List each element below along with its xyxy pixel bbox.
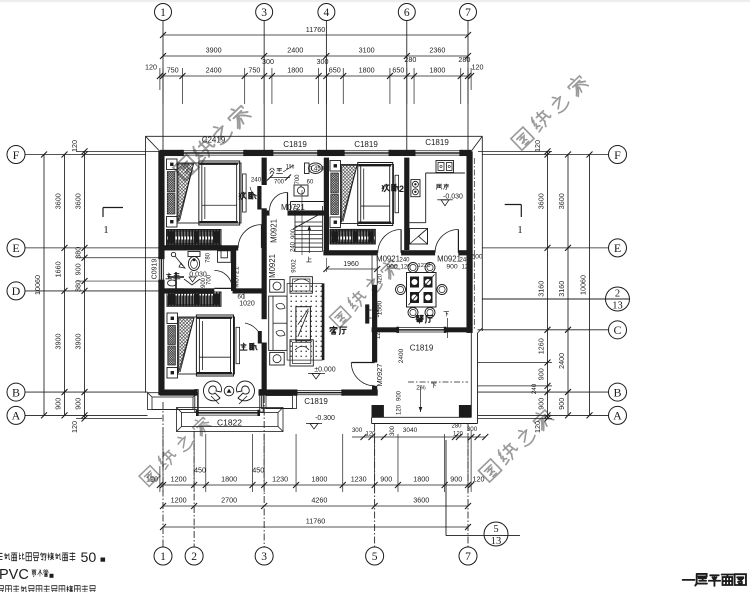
dimension chain top row 2: [160, 46, 471, 60]
grid bubble 3 bottom: [255, 547, 273, 565]
dimension chain right middle: [557, 152, 571, 419]
svg-text:4: 4: [324, 7, 330, 19]
door kitchen M0921 arc: [435, 230, 458, 253]
svg-text:7: 7: [465, 551, 471, 563]
window C1819 bottom (living): [295, 389, 344, 395]
label living room (ke ting): [330, 326, 347, 334]
svg-text:120: 120: [473, 475, 485, 484]
bay parapet ledges: [148, 392, 297, 432]
kitchen corner shelf: [410, 229, 428, 245]
footnote line 2 PVC: [0, 567, 54, 583]
svg-text:M0921: M0921: [437, 255, 461, 264]
armchair top: [290, 277, 312, 294]
svg-text:2: 2: [191, 551, 197, 563]
grid line 1 vertical: [162, 21, 164, 548]
svg-text:2400: 2400: [206, 66, 222, 75]
grid line 5 vertical (bottom): [374, 424, 376, 548]
grid bubble E left: [7, 239, 25, 257]
svg-text:10060: 10060: [33, 275, 42, 295]
footnote line 3 (clipped): [0, 585, 95, 592]
grid bubble F right: [609, 146, 627, 164]
svg-text:C1819: C1819: [283, 140, 307, 149]
svg-text:E: E: [12, 241, 19, 255]
svg-text:4260: 4260: [311, 496, 327, 505]
grid bubble 3 top: [256, 4, 273, 21]
watermark top-left: [172, 102, 252, 180]
dining table: [407, 273, 437, 308]
interior wall grid6 vertical: [404, 158, 409, 250]
svg-text:3900: 3900: [206, 46, 222, 55]
door master bedroom leaf+arc: [245, 323, 262, 344]
label C2419: [202, 136, 226, 145]
svg-text:380: 380: [74, 247, 83, 259]
dim 1960 dining: [323, 258, 430, 272]
svg-text:M0921: M0921: [270, 219, 279, 243]
grid bubble B right: [609, 383, 627, 401]
svg-text:C0919: C0919: [152, 259, 159, 280]
svg-text:240: 240: [459, 258, 470, 264]
label C1819 bath top: [283, 140, 307, 149]
grid bubble 5 bottom: [366, 547, 384, 565]
svg-text:1230: 1230: [272, 475, 288, 484]
dimension chain bottom row 2: [160, 496, 471, 510]
window C0919 left: [158, 257, 164, 283]
porch edge lines: [372, 328, 483, 424]
small bath toilet: [305, 163, 323, 174]
label dining room (can ting): [416, 315, 433, 323]
svg-text:900: 900: [74, 398, 83, 410]
grid bubble 2 bottom: [185, 547, 203, 565]
svg-text:3900: 3900: [74, 334, 83, 350]
svg-text:900: 900: [54, 398, 63, 410]
armchair bottom: [290, 340, 313, 366]
svg-text:900: 900: [557, 398, 566, 410]
svg-text:300: 300: [262, 57, 274, 66]
svg-text:13: 13: [491, 536, 502, 547]
bed bedroom1: [167, 159, 247, 227]
svg-text:2: 2: [399, 184, 404, 194]
svg-text:120: 120: [461, 265, 472, 271]
svg-text:900: 900: [74, 263, 83, 275]
dimension chain right inner: [531, 140, 551, 433]
svg-text:1020: 1020: [239, 301, 255, 308]
interior wall grid3 vertical: [262, 158, 267, 392]
footnote line 1: [0, 550, 105, 566]
svg-text:2%: 2%: [416, 385, 426, 392]
svg-text:450: 450: [252, 466, 264, 475]
porch slope marks: [375, 304, 468, 415]
label 0.450: [309, 166, 325, 173]
porch north wall / window C1819: [372, 327, 471, 333]
svg-text:120: 120: [453, 432, 464, 438]
bed master bedroom: [167, 313, 240, 378]
svg-text:1660: 1660: [54, 261, 63, 277]
svg-text:700: 700: [295, 174, 301, 185]
grid bubble 1 top: [155, 4, 172, 21]
svg-text:3600: 3600: [74, 193, 83, 209]
svg-text:7: 7: [465, 7, 471, 19]
staircase: [293, 206, 324, 262]
svg-text:1260: 1260: [537, 338, 546, 354]
svg-text:3900: 3900: [54, 334, 63, 350]
dimension chain bottom row 1 detailed: [146, 466, 485, 489]
sofa end table top: [270, 280, 285, 293]
svg-text:C1819: C1819: [410, 344, 434, 353]
svg-text:450: 450: [194, 466, 206, 475]
grid bubble 7 top: [460, 4, 477, 21]
label master bedroom (zhu wo): [240, 343, 257, 350]
svg-text:120: 120: [365, 432, 376, 438]
svg-text:C: C: [613, 323, 621, 337]
label C1819 kitchen top: [425, 138, 449, 147]
door small bath arc M0721: [270, 192, 288, 210]
grid bubble C right: [609, 321, 627, 339]
door M0927 porch arc: [351, 363, 374, 386]
svg-text:120: 120: [472, 63, 484, 72]
svg-text:M0921: M0921: [268, 254, 277, 278]
interior wall E row east (bed2+kitchen south): [323, 250, 471, 255]
grid line C horizontal (right): [478, 329, 609, 331]
label -0.030 level: [437, 194, 463, 206]
window C1819 top (bedroom2): [342, 150, 391, 156]
label M0921 kitchen door: [437, 254, 483, 271]
top witness lines: [160, 68, 471, 104]
svg-text:900: 900: [291, 228, 297, 239]
svg-text:1800: 1800: [287, 66, 303, 75]
svg-text:M0721: M0721: [234, 266, 241, 288]
door bedroom1 E-wall arc: [238, 225, 261, 248]
svg-text:3600: 3600: [54, 193, 63, 209]
svg-text:3600: 3600: [413, 496, 429, 505]
svg-text:280: 280: [451, 424, 462, 430]
left witness lines: [76, 151, 162, 418]
svg-text:120: 120: [70, 140, 79, 152]
grid line D horizontal (left): [25, 290, 160, 292]
watermark bottom-center-right: [478, 407, 555, 482]
dims 780 / 700 master bath: [201, 252, 213, 288]
label bedroom2 (ci wo 2): [382, 184, 404, 194]
svg-text:M0921: M0921: [376, 255, 400, 264]
svg-text:420: 420: [378, 273, 384, 284]
label C1819 porch: [410, 344, 434, 353]
svg-text:A: A: [12, 409, 21, 423]
exterior wall right: [466, 151, 472, 333]
svg-text:10060: 10060: [579, 275, 588, 295]
exterior wall top: [160, 150, 471, 156]
svg-text:C1819: C1819: [425, 138, 449, 147]
svg-text:2400: 2400: [557, 353, 566, 369]
second floor overhang line right: [473, 158, 475, 330]
svg-text:11760: 11760: [306, 517, 325, 526]
svg-text:1220: 1220: [418, 263, 431, 269]
sofa long (west): [269, 296, 287, 350]
label kitchen (chu fang): [436, 184, 448, 190]
svg-text:0.030: 0.030: [189, 272, 207, 279]
divider bath/stair: [291, 202, 327, 211]
svg-text:5: 5: [372, 551, 378, 563]
label M0721 corridor: [281, 203, 305, 212]
grid bubble F left: [7, 146, 25, 164]
label C0919: [152, 259, 159, 280]
svg-text:240: 240: [399, 258, 410, 264]
interior wall grid4 vertical: [324, 158, 329, 253]
interior wall D row: [160, 288, 264, 293]
master bath toilet: [188, 252, 200, 271]
svg-text:650: 650: [329, 66, 341, 75]
svg-text:F: F: [13, 148, 20, 162]
svg-text:900: 900: [537, 398, 546, 410]
svg-text:240: 240: [531, 383, 538, 394]
svg-text:300: 300: [390, 425, 396, 436]
svg-text:9002: 9002: [292, 259, 298, 273]
scan artifact top edge band: [0, 0, 750, 2]
kitchen counter: [409, 173, 465, 223]
svg-text:60: 60: [307, 180, 314, 186]
svg-text:1: 1: [160, 551, 166, 563]
section mark 1 right: [505, 205, 523, 237]
svg-text:5: 5: [493, 524, 498, 535]
svg-text:300: 300: [352, 427, 363, 434]
svg-text:1800: 1800: [429, 66, 445, 75]
grid bubble A right: [609, 406, 627, 424]
grid bubble E right: [609, 239, 627, 257]
svg-text:120: 120: [145, 63, 157, 72]
svg-text:±0.000: ±0.000: [314, 367, 335, 374]
master bath floor drain zigzag: [184, 279, 200, 285]
svg-text:1200: 1200: [171, 475, 187, 484]
svg-text:2400: 2400: [398, 348, 405, 363]
svg-text:3: 3: [261, 7, 267, 19]
label master bath (zhu wei): [166, 273, 180, 279]
level -0.300: [306, 415, 335, 429]
svg-text:C2419: C2419: [202, 136, 226, 145]
svg-text:900: 900: [446, 264, 458, 271]
svg-text:3160: 3160: [537, 281, 546, 297]
label C1819 living bottom: [304, 397, 328, 406]
corridor vertical dims 900 240 900: [291, 190, 303, 273]
label 0.030 level: [189, 272, 207, 283]
small bath basin: [294, 185, 308, 196]
grid line 6 vertical: [406, 21, 408, 152]
svg-text:2700: 2700: [221, 496, 237, 505]
window C2419 top: [181, 150, 246, 156]
label M0921 bedroom2 door: [376, 255, 411, 271]
rug with dots: [287, 283, 323, 360]
svg-text:240: 240: [251, 177, 262, 184]
svg-text:900: 900: [537, 368, 546, 380]
small bath 1% slope: [283, 165, 295, 173]
svg-text:280: 280: [458, 55, 470, 64]
svg-text:-0.300: -0.300: [315, 415, 335, 422]
eave outline: [146, 136, 483, 392]
bottom witness lines: [160, 430, 471, 492]
kitchen sink: [436, 161, 454, 173]
svg-text:3100: 3100: [359, 46, 375, 55]
window C1819 top (bath): [271, 150, 320, 156]
svg-text:M0927: M0927: [375, 364, 384, 387]
svg-text:1: 1: [103, 224, 109, 236]
interior wall bath-corridor (M0721 row): [264, 210, 326, 215]
svg-text:600: 600: [471, 254, 483, 261]
opening living-dining 1500: [376, 273, 384, 339]
svg-text:1230: 1230: [351, 475, 367, 484]
right witness lines: [478, 151, 552, 418]
watermark top-right: [510, 73, 589, 151]
svg-text:B: B: [12, 385, 20, 399]
master bath basin: [168, 272, 185, 289]
detail bubble 5/13 bottom: [446, 440, 520, 547]
svg-text:2400: 2400: [287, 46, 303, 55]
exterior wall bottom (B row): [160, 389, 378, 395]
wardrobe bedroom2: [330, 229, 375, 244]
wardrobe master bedroom: [167, 292, 221, 306]
door master bath M0721 arc: [214, 270, 232, 288]
svg-text:13: 13: [612, 301, 623, 312]
grid line 4 vertical: [325, 21, 327, 152]
svg-text:300: 300: [467, 426, 478, 433]
level +-0.000: [308, 367, 336, 380]
dimension chain top row 1 (11760): [160, 25, 471, 38]
svg-text:D: D: [12, 284, 21, 298]
interior wall master-bath right vertical: [231, 248, 236, 291]
svg-text:780: 780: [206, 252, 212, 263]
section mark 1 left: [103, 208, 123, 237]
svg-text:700: 700: [207, 274, 213, 285]
svg-text:11760: 11760: [306, 25, 325, 34]
dining chairs: [396, 263, 448, 318]
label M0721 master bath: [234, 266, 241, 288]
grid bubble B left: [7, 383, 25, 401]
porch bottom local dims: [352, 424, 488, 441]
dimension chain right outer (10060): [579, 152, 593, 419]
svg-text:900: 900: [397, 390, 403, 401]
grid bubble 6 top: [398, 4, 415, 21]
svg-text:C1819: C1819: [354, 140, 378, 149]
svg-text:900: 900: [380, 475, 392, 484]
label C1822: [217, 418, 242, 428]
svg-text:50: 50: [81, 550, 97, 566]
grid line A horizontal: [25, 414, 609, 416]
svg-text:280: 280: [404, 55, 416, 64]
svg-text:C1822: C1822: [217, 418, 242, 428]
svg-text:1960: 1960: [343, 261, 359, 268]
dimension chain bottom row 3 (11760): [160, 517, 471, 531]
TV cabinet: [365, 304, 371, 323]
svg-text:C1819: C1819: [304, 397, 328, 406]
svg-text:1500: 1500: [375, 304, 381, 318]
label M0927: [375, 364, 384, 387]
label M0921 corridor upper: [270, 219, 279, 243]
bay window C1822: [196, 410, 260, 416]
svg-text:1800: 1800: [311, 475, 327, 484]
svg-text:120: 120: [533, 140, 542, 152]
dimension chain left outer (10060): [33, 152, 47, 419]
svg-text:120: 120: [397, 404, 403, 415]
svg-text:750: 750: [248, 66, 260, 75]
bay window seats: [203, 381, 254, 404]
grid bubble 7 bottom: [459, 547, 477, 565]
grid line 2 vertical (bottom): [193, 431, 195, 548]
grid line B horizontal: [25, 391, 609, 393]
title: first floor plan: [683, 574, 746, 586]
svg-text:1: 1: [160, 7, 166, 19]
svg-text:380: 380: [74, 280, 83, 292]
door bedroom1 g3-wall leaf: [250, 186, 262, 210]
svg-text:M0721: M0721: [281, 203, 305, 212]
svg-text:B: B: [613, 385, 621, 399]
label bedroom1 (ci wo): [239, 192, 256, 199]
svg-text:3160: 3160: [557, 281, 566, 297]
label small bath (gong wei): [270, 168, 283, 173]
svg-text:PVC: PVC: [0, 567, 29, 583]
sofa end table bottom: [270, 352, 285, 365]
grid line F horizontal: [25, 154, 609, 156]
label C1819 bedroom2 top: [354, 140, 378, 149]
grid line 3 vertical: [263, 21, 265, 548]
watermark bottom-left: [138, 415, 212, 487]
svg-text:2: 2: [615, 289, 620, 300]
svg-text:700: 700: [274, 180, 285, 186]
svg-text:0.450: 0.450: [309, 166, 325, 173]
bed bedroom2: [330, 161, 399, 228]
svg-text:1800: 1800: [413, 475, 429, 484]
grid bubble D left: [7, 282, 25, 300]
grid line E horizontal: [25, 247, 609, 249]
svg-text:120: 120: [533, 421, 542, 433]
porch column left: [372, 405, 384, 417]
svg-text:1800: 1800: [359, 66, 375, 75]
svg-text:120: 120: [70, 421, 79, 433]
svg-text:1800: 1800: [221, 475, 237, 484]
svg-text:900: 900: [450, 475, 462, 484]
dimension chain top row 3 detailed: [145, 55, 484, 79]
interior wall E row (bedroom1 south): [160, 245, 238, 250]
grid bubble 1 bottom: [154, 547, 172, 565]
svg-text:650: 650: [392, 66, 404, 75]
svg-text:750: 750: [167, 66, 179, 75]
coffee table: [296, 307, 311, 341]
window C1819 top (kitchen): [413, 150, 462, 156]
svg-text:3040: 3040: [403, 427, 418, 434]
svg-text:300: 300: [317, 57, 329, 66]
svg-text:F: F: [614, 148, 621, 162]
svg-text:E: E: [614, 241, 621, 255]
wardrobe bedroom1: [167, 230, 222, 246]
svg-text:3600: 3600: [537, 193, 546, 209]
dimension chain left middle: [54, 152, 68, 419]
label 240 bedroom1 door: [251, 177, 262, 184]
grid bubble 4 top: [318, 4, 335, 21]
label 60 1020: [237, 292, 255, 308]
dims 700 700 60 small bath: [267, 174, 314, 186]
svg-text:3: 3: [261, 551, 267, 563]
door bedroom2 M0921 arc: [378, 230, 401, 253]
svg-text:A: A: [613, 409, 622, 423]
label M0921 corridor lower: [268, 254, 277, 278]
porch column right: [459, 405, 471, 417]
bay window interior walls: [195, 390, 263, 413]
grid bubble A left: [7, 406, 25, 424]
grid line 7 vertical: [467, 21, 469, 548]
svg-text:900: 900: [386, 264, 398, 271]
dimension chain left inner: [70, 140, 88, 433]
washing machine niche: [218, 251, 232, 263]
svg-text:1200: 1200: [171, 496, 187, 505]
master bath shower head: [171, 252, 185, 268]
svg-text:6: 6: [404, 7, 410, 19]
svg-text:120: 120: [146, 475, 158, 484]
svg-text:2360: 2360: [429, 46, 445, 55]
